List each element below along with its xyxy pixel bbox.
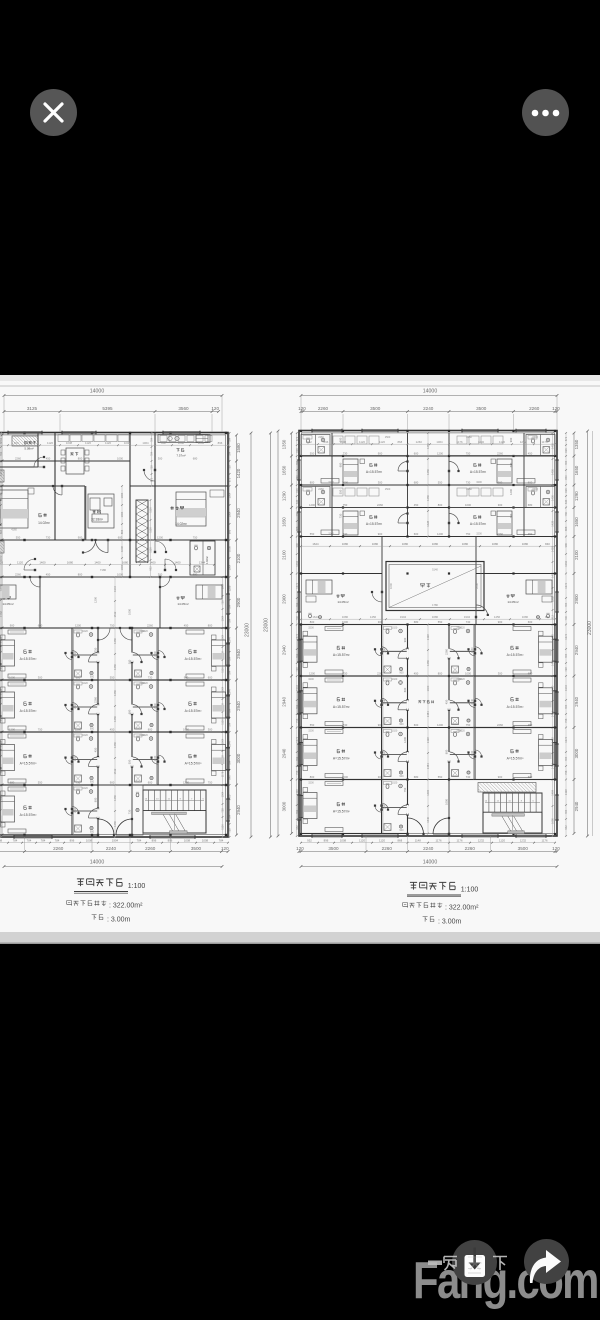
svg-text:756: 756 <box>564 511 568 516</box>
svg-text:2940: 2940 <box>282 645 287 655</box>
svg-text:2040: 2040 <box>384 698 387 704</box>
svg-text:1500: 1500 <box>385 488 391 491</box>
svg-text:750: 750 <box>193 535 198 539</box>
svg-text:900: 900 <box>90 831 95 834</box>
svg-text:900: 900 <box>453 672 458 675</box>
svg-text:784: 784 <box>0 451 3 456</box>
svg-text:3500: 3500 <box>191 846 202 851</box>
svg-text:120: 120 <box>211 406 219 411</box>
svg-text:680: 680 <box>193 456 198 460</box>
svg-text:730: 730 <box>128 809 132 814</box>
svg-text:750: 750 <box>343 503 348 507</box>
svg-text:1232: 1232 <box>551 596 555 602</box>
svg-text:952: 952 <box>149 566 153 571</box>
svg-text:800: 800 <box>438 671 443 675</box>
svg-text:1120: 1120 <box>221 667 225 673</box>
svg-text:1000: 1000 <box>445 799 449 805</box>
svg-text:900: 900 <box>453 775 458 778</box>
svg-text:3200: 3200 <box>328 533 334 536</box>
svg-text:1456: 1456 <box>113 716 117 722</box>
svg-text:1400: 1400 <box>149 561 156 565</box>
svg-text:1120: 1120 <box>149 547 153 553</box>
svg-text:5395: 5395 <box>102 406 113 411</box>
svg-text:784: 784 <box>564 653 568 658</box>
svg-text:750: 750 <box>466 723 471 727</box>
svg-text:1020: 1020 <box>142 734 148 737</box>
svg-text:728: 728 <box>228 465 232 470</box>
svg-text:1000: 1000 <box>465 671 471 675</box>
svg-text:1456: 1456 <box>494 615 501 619</box>
svg-text:1680: 1680 <box>462 542 469 546</box>
svg-text:896: 896 <box>0 529 3 534</box>
svg-text:1456: 1456 <box>426 443 430 449</box>
svg-text:1176: 1176 <box>541 440 547 444</box>
svg-text:2240: 2240 <box>106 846 117 851</box>
svg-text:1000: 1000 <box>342 620 348 624</box>
svg-text:A=15.57m²: A=15.57m² <box>333 757 351 761</box>
svg-text:300: 300 <box>498 671 503 675</box>
svg-text:2940: 2940 <box>236 805 241 815</box>
svg-text:1512: 1512 <box>113 611 117 617</box>
svg-text:450: 450 <box>528 723 533 727</box>
svg-text:784: 784 <box>150 437 154 442</box>
svg-text:800: 800 <box>148 727 153 731</box>
svg-text:1428: 1428 <box>295 789 299 795</box>
svg-text:1000: 1000 <box>128 609 132 615</box>
svg-text:1020: 1020 <box>82 734 88 737</box>
svg-text:2040: 2040 <box>384 647 387 653</box>
svg-text:1428: 1428 <box>551 520 555 526</box>
svg-text:300: 300 <box>38 675 43 679</box>
svg-text:700: 700 <box>564 615 568 620</box>
svg-text:1008: 1008 <box>178 441 185 445</box>
svg-text:3200: 3200 <box>308 730 314 733</box>
svg-text:1200: 1200 <box>94 597 98 603</box>
svg-text:1904: 1904 <box>112 839 119 843</box>
svg-text:4160: 4160 <box>11 528 17 532</box>
left title <box>77 879 122 886</box>
svg-text:616: 616 <box>295 448 299 453</box>
svg-text:616: 616 <box>295 488 299 493</box>
svg-text:900: 900 <box>90 676 95 679</box>
svg-text:3000: 3000 <box>236 753 241 763</box>
svg-text:784: 784 <box>228 451 232 456</box>
svg-text:2240: 2240 <box>423 406 434 411</box>
svg-text:1456: 1456 <box>551 443 555 449</box>
svg-text:1456: 1456 <box>113 821 117 827</box>
svg-text:1000: 1000 <box>117 572 123 576</box>
svg-text:900: 900 <box>378 451 383 455</box>
svg-text:900: 900 <box>498 620 503 624</box>
svg-text:2100: 2100 <box>574 550 579 560</box>
svg-text:2900: 2900 <box>574 594 579 604</box>
svg-text:1344: 1344 <box>564 685 568 691</box>
svg-text:14.05m²: 14.05m² <box>177 602 188 606</box>
more button <box>522 89 569 136</box>
svg-text:750: 750 <box>509 513 513 518</box>
svg-text:1344: 1344 <box>295 685 299 691</box>
svg-text:2040: 2040 <box>471 647 474 653</box>
svg-text:868: 868 <box>564 526 568 531</box>
svg-text:750: 750 <box>110 623 115 627</box>
svg-text:616: 616 <box>564 448 568 453</box>
svg-text:2260: 2260 <box>15 572 21 576</box>
svg-text:14.05m²: 14.05m² <box>337 600 348 604</box>
svg-text:896: 896 <box>324 839 329 843</box>
svg-text:1120: 1120 <box>0 561 3 565</box>
svg-text:784: 784 <box>55 839 60 843</box>
svg-text:1176: 1176 <box>541 839 547 843</box>
svg-text:1420: 1420 <box>236 468 241 478</box>
svg-text:1232: 1232 <box>478 440 485 444</box>
svg-text:1456: 1456 <box>113 742 117 748</box>
svg-text:2260: 2260 <box>529 406 540 411</box>
svg-text:1176: 1176 <box>456 839 462 843</box>
svg-text:672: 672 <box>295 436 299 441</box>
svg-text:1680: 1680 <box>432 615 439 619</box>
svg-text:730: 730 <box>343 723 348 727</box>
svg-text:2940: 2940 <box>282 748 287 758</box>
svg-text:1064: 1064 <box>221 791 225 797</box>
svg-text:1500: 1500 <box>532 436 538 439</box>
svg-text:868: 868 <box>397 839 402 843</box>
svg-text:A=15.57m²: A=15.57m² <box>507 757 525 761</box>
svg-text:A=15.57m²: A=15.57m² <box>507 653 525 657</box>
svg-text:1120: 1120 <box>379 839 385 843</box>
svg-text:1680: 1680 <box>432 542 439 546</box>
svg-text:784: 784 <box>27 839 32 843</box>
svg-text:A=15.57m²: A=15.57m² <box>20 657 38 661</box>
svg-text:1176: 1176 <box>435 839 441 843</box>
svg-text:A=15.57m²: A=15.57m² <box>185 762 203 766</box>
svg-text:1288: 1288 <box>228 585 232 591</box>
svg-text:14.05m²: 14.05m² <box>507 600 518 604</box>
right title <box>410 882 455 889</box>
svg-text:2040: 2040 <box>74 807 77 813</box>
svg-text:550: 550 <box>310 532 315 536</box>
svg-text:1428: 1428 <box>551 546 555 552</box>
svg-text:1064: 1064 <box>221 634 225 640</box>
svg-text:900: 900 <box>453 723 458 726</box>
svg-text:A=15.57m²: A=15.57m² <box>20 709 38 713</box>
svg-text:1650: 1650 <box>282 517 287 527</box>
svg-text:550: 550 <box>110 675 115 679</box>
svg-text:800: 800 <box>78 456 83 460</box>
svg-text:2940: 2940 <box>574 801 579 811</box>
svg-text:750: 750 <box>466 451 471 455</box>
svg-text:1680: 1680 <box>372 542 379 546</box>
svg-text:750: 750 <box>466 532 471 536</box>
svg-text:900: 900 <box>399 723 404 726</box>
svg-text:1500: 1500 <box>532 488 538 491</box>
svg-text:2260: 2260 <box>497 723 503 727</box>
svg-text:14.05m²: 14.05m² <box>2 602 13 606</box>
svg-text:1350: 1350 <box>282 439 287 449</box>
void <box>386 562 484 611</box>
svg-text:784: 784 <box>41 839 46 843</box>
download button <box>452 1240 497 1285</box>
svg-text:5140: 5140 <box>432 568 438 572</box>
svg-text:600: 600 <box>414 451 419 455</box>
svg-text:1176: 1176 <box>221 771 225 777</box>
svg-text:1372: 1372 <box>564 582 568 588</box>
svg-text:120: 120 <box>296 846 304 851</box>
svg-text:750: 750 <box>343 671 348 675</box>
svg-text:784: 784 <box>295 809 299 814</box>
svg-text:23000: 23000 <box>245 623 251 637</box>
svg-text:3200: 3200 <box>476 481 482 484</box>
svg-text:2040: 2040 <box>74 703 77 709</box>
svg-text:1008: 1008 <box>86 839 93 843</box>
svg-text:1200: 1200 <box>437 451 443 455</box>
svg-text:616: 616 <box>564 488 568 493</box>
svg-text:1680: 1680 <box>67 561 74 565</box>
svg-text:3000: 3000 <box>574 748 579 758</box>
svg-text:2260: 2260 <box>382 846 393 851</box>
svg-text:896: 896 <box>228 529 232 534</box>
svg-text:2260: 2260 <box>145 846 156 851</box>
svg-text:896: 896 <box>70 839 75 843</box>
svg-text:1020: 1020 <box>142 682 148 685</box>
svg-text:900: 900 <box>136 728 141 731</box>
svg-text:800: 800 <box>310 620 315 624</box>
svg-text:900: 900 <box>136 676 141 679</box>
svg-text:784: 784 <box>564 809 568 814</box>
svg-text:2940: 2940 <box>236 508 241 518</box>
svg-text:868: 868 <box>30 441 35 445</box>
svg-text:1650: 1650 <box>574 465 579 475</box>
svg-text:2040: 2040 <box>471 750 474 756</box>
svg-text:952: 952 <box>295 825 299 830</box>
svg-text:1064: 1064 <box>142 441 149 445</box>
svg-text:600: 600 <box>528 775 533 779</box>
svg-text:1200: 1200 <box>437 723 443 727</box>
svg-text:300: 300 <box>378 480 383 484</box>
svg-text:A=15.57m²: A=15.57m² <box>185 657 203 661</box>
svg-text:1064: 1064 <box>221 583 225 589</box>
right plan <box>299 431 557 837</box>
close button <box>30 89 77 136</box>
svg-text:1064: 1064 <box>221 615 225 621</box>
svg-text:1680: 1680 <box>122 561 129 565</box>
svg-text:1:100: 1:100 <box>128 883 146 890</box>
photo area <box>0 375 600 944</box>
svg-text:1680: 1680 <box>402 542 409 546</box>
svg-text:784: 784 <box>219 839 224 843</box>
svg-text:450: 450 <box>414 671 419 675</box>
svg-text:300: 300 <box>158 456 163 460</box>
svg-text:1008: 1008 <box>340 839 347 843</box>
svg-text:1456: 1456 <box>113 690 117 696</box>
svg-text:900: 900 <box>136 781 141 784</box>
svg-text:1232: 1232 <box>478 839 485 843</box>
svg-text:812: 812 <box>551 614 555 619</box>
svg-text:900: 900 <box>399 829 404 832</box>
svg-text:730: 730 <box>466 620 471 624</box>
svg-text:756: 756 <box>295 718 299 723</box>
svg-text:644: 644 <box>295 499 299 504</box>
svg-text:728: 728 <box>150 465 154 470</box>
svg-text:2100: 2100 <box>236 553 241 563</box>
svg-text:1484: 1484 <box>426 763 430 769</box>
svg-text:450: 450 <box>414 503 419 507</box>
svg-text:1372: 1372 <box>564 736 568 742</box>
svg-text:1650: 1650 <box>574 517 579 527</box>
svg-text:1456: 1456 <box>551 469 555 475</box>
svg-text:1484: 1484 <box>426 711 430 717</box>
svg-text:23000: 23000 <box>264 618 270 632</box>
svg-text:1020: 1020 <box>392 627 398 630</box>
svg-text:1120: 1120 <box>359 839 365 843</box>
svg-text:1290: 1290 <box>282 491 287 501</box>
svg-text:1200: 1200 <box>437 532 443 536</box>
svg-text:3200: 3200 <box>328 481 334 484</box>
svg-text:3500: 3500 <box>518 846 529 851</box>
svg-text:1904: 1904 <box>464 615 471 619</box>
svg-text:1064: 1064 <box>120 511 124 517</box>
svg-text:550: 550 <box>310 723 315 727</box>
svg-text:680: 680 <box>414 620 419 624</box>
svg-text:14000: 14000 <box>423 389 438 395</box>
svg-text:900: 900 <box>90 781 95 784</box>
svg-text:1176: 1176 <box>456 440 462 444</box>
svg-text:840: 840 <box>545 542 550 546</box>
svg-text:: 3.00m: : 3.00m <box>438 919 462 926</box>
svg-text:1064: 1064 <box>436 440 443 444</box>
svg-text:1020: 1020 <box>459 627 465 630</box>
svg-text:2040: 2040 <box>74 651 77 657</box>
svg-text:2040: 2040 <box>471 698 474 704</box>
svg-text:1372: 1372 <box>295 633 299 639</box>
svg-text:A=15.57m²: A=15.57m² <box>366 470 383 474</box>
svg-text:800: 800 <box>445 749 449 754</box>
svg-text:1500: 1500 <box>385 436 391 439</box>
svg-text:14000: 14000 <box>90 389 105 395</box>
svg-text:868: 868 <box>295 526 299 531</box>
svg-text:900: 900 <box>498 775 503 779</box>
svg-text:550: 550 <box>438 620 443 624</box>
svg-text:450: 450 <box>445 699 449 704</box>
svg-text:1680: 1680 <box>342 542 349 546</box>
svg-text:3500: 3500 <box>476 406 487 411</box>
svg-text:680: 680 <box>414 480 419 484</box>
svg-text:600: 600 <box>403 687 407 692</box>
svg-text:A=15.57m²: A=15.57m² <box>20 813 38 817</box>
svg-text:840: 840 <box>545 615 550 619</box>
svg-text:1020: 1020 <box>392 730 398 733</box>
svg-text:750: 750 <box>403 787 407 792</box>
svg-text:550: 550 <box>438 480 443 484</box>
svg-text:1456: 1456 <box>113 638 117 644</box>
svg-text:728: 728 <box>564 667 568 672</box>
svg-text:896: 896 <box>120 529 124 534</box>
svg-text:1008: 1008 <box>124 441 131 445</box>
svg-text:1456: 1456 <box>113 795 117 801</box>
svg-text:1064: 1064 <box>0 492 3 498</box>
svg-text:1064: 1064 <box>228 492 232 498</box>
svg-text:728: 728 <box>221 600 225 605</box>
svg-text:1020: 1020 <box>82 630 88 633</box>
svg-text:1020: 1020 <box>459 678 465 681</box>
svg-text:896: 896 <box>168 839 173 843</box>
svg-text:1344: 1344 <box>199 561 206 565</box>
svg-text:784: 784 <box>295 602 299 607</box>
svg-text:1120: 1120 <box>359 440 365 444</box>
svg-text:1120: 1120 <box>149 527 153 533</box>
svg-text:868: 868 <box>397 440 402 444</box>
svg-text:728: 728 <box>221 808 225 813</box>
svg-text:2260: 2260 <box>466 488 472 491</box>
svg-text:1456: 1456 <box>426 660 430 666</box>
svg-text:300: 300 <box>498 503 503 507</box>
svg-text:1624: 1624 <box>312 615 319 619</box>
svg-text:300: 300 <box>208 727 213 731</box>
svg-text:1020: 1020 <box>392 678 398 681</box>
svg-text:1232: 1232 <box>520 839 527 843</box>
svg-text:: 322.00m²: : 322.00m² <box>445 905 479 912</box>
svg-text:: 322.00m²: : 322.00m² <box>109 903 143 910</box>
svg-text:1484: 1484 <box>426 789 430 795</box>
svg-text:840: 840 <box>295 475 299 480</box>
svg-text:14000: 14000 <box>90 860 105 866</box>
svg-text:756: 756 <box>564 718 568 723</box>
svg-text:1064: 1064 <box>221 738 225 744</box>
svg-text:840: 840 <box>564 475 568 480</box>
svg-text:A=15.57m²: A=15.57m² <box>470 522 487 526</box>
svg-text:2900: 2900 <box>282 594 287 604</box>
svg-text:1290: 1290 <box>574 491 579 501</box>
svg-text:1200: 1200 <box>309 503 315 507</box>
svg-text:800: 800 <box>208 623 213 627</box>
svg-text:1456: 1456 <box>426 469 430 475</box>
svg-text:784: 784 <box>295 460 299 465</box>
svg-text:900: 900 <box>399 672 404 675</box>
svg-text:800: 800 <box>310 480 315 484</box>
svg-text:672: 672 <box>564 436 568 441</box>
svg-text:1.92m²: 1.92m² <box>205 556 209 564</box>
svg-text:952: 952 <box>564 825 568 830</box>
svg-text:784: 784 <box>13 839 18 843</box>
svg-text:600: 600 <box>148 780 153 784</box>
svg-text:800: 800 <box>310 775 315 779</box>
svg-text:1456: 1456 <box>426 495 430 501</box>
svg-text:2040: 2040 <box>154 651 157 657</box>
svg-text:1064: 1064 <box>120 492 124 498</box>
svg-text:1904: 1904 <box>400 615 407 619</box>
svg-text:A=15.57m²: A=15.57m² <box>333 653 351 657</box>
svg-text:1120: 1120 <box>221 719 225 725</box>
svg-text:2100: 2100 <box>282 550 287 560</box>
svg-text:980: 980 <box>564 542 568 547</box>
svg-text:2040: 2040 <box>154 755 157 761</box>
房天下 watermark over buttons <box>424 1252 600 1278</box>
svg-text:3200: 3200 <box>308 678 314 681</box>
svg-text:756: 756 <box>295 770 299 775</box>
svg-text:1200: 1200 <box>403 737 407 743</box>
svg-text:3200: 3200 <box>308 782 314 785</box>
svg-text:1120: 1120 <box>105 441 111 445</box>
svg-text:728: 728 <box>295 667 299 672</box>
svg-text:2260: 2260 <box>466 436 472 439</box>
svg-text:1120: 1120 <box>499 440 505 444</box>
svg-text:756: 756 <box>564 770 568 775</box>
svg-text:1148: 1148 <box>415 839 421 843</box>
svg-text:730: 730 <box>76 780 81 784</box>
svg-text:1020: 1020 <box>392 782 398 785</box>
svg-text:1568: 1568 <box>0 611 3 617</box>
svg-text:800: 800 <box>94 797 98 802</box>
svg-text:1200: 1200 <box>157 535 163 539</box>
